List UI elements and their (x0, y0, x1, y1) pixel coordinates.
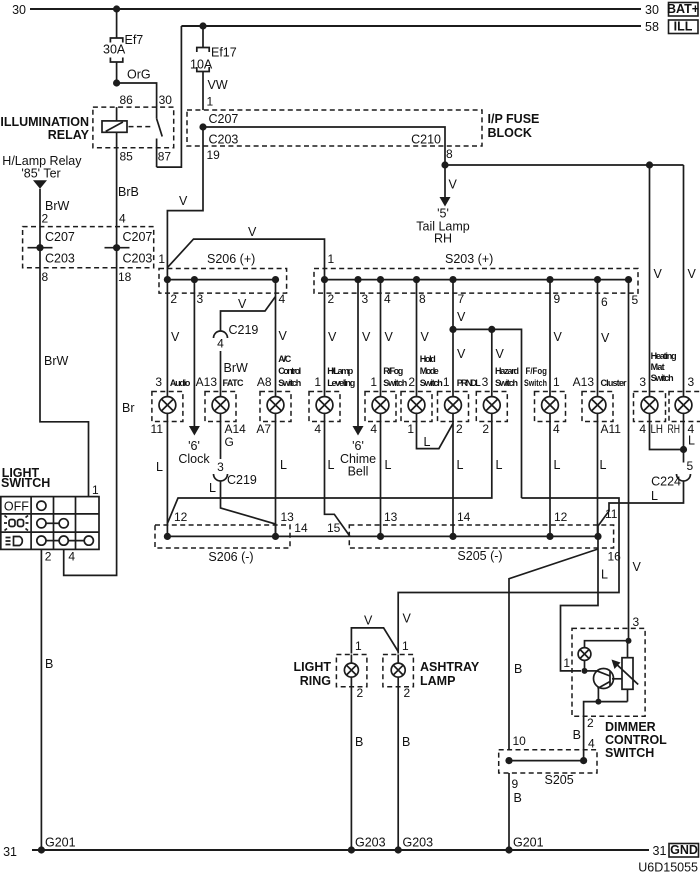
svg-text:4: 4 (384, 292, 391, 306)
svg-text:V: V (248, 225, 257, 239)
light switch contacts row head (37, 536, 94, 545)
wire: heating mat LH pin 4 join (639, 422, 683, 450)
svg-text:U6D15055: U6D15055 (638, 861, 698, 875)
wire Br: connector C203 pin 18 to light switch pin 4 (64, 248, 135, 576)
lamp R/fog switch illumination (365, 392, 396, 422)
svg-text:L: L (385, 458, 392, 472)
wire B: light ring to ground G203 (351, 687, 363, 850)
light switch contacts row parking (37, 519, 69, 528)
lamp hold mode switch illumination (401, 392, 432, 422)
wire V: S203 pin 6 to cluster lamp (598, 280, 611, 392)
svg-text:86: 86 (120, 93, 134, 107)
svg-text:1: 1 (563, 656, 570, 670)
clock destination label (178, 439, 210, 466)
svg-text:31: 31 (3, 845, 17, 859)
light ring label (294, 660, 332, 688)
svg-text:4: 4 (370, 422, 377, 436)
svg-text:A13: A13 (196, 375, 218, 389)
connector C219 pin 3 (214, 460, 257, 487)
svg-text:BrB: BrB (118, 185, 139, 199)
svg-text:L: L (156, 460, 163, 474)
svg-text:9: 9 (512, 777, 519, 791)
svg-text:A14: A14 (225, 422, 247, 436)
connector C207/C203 junction BrB (105, 244, 130, 251)
svg-text:B: B (45, 657, 53, 671)
svg-text:1: 1 (402, 639, 409, 653)
svg-text:30A: 30A (103, 43, 126, 57)
svg-text:Mode: Mode (420, 366, 439, 376)
svg-text:1: 1 (443, 375, 450, 389)
lamp H/lamp leveling illumination (309, 392, 340, 422)
lamp heating mat switch LH illumination (634, 392, 666, 422)
svg-text:30: 30 (12, 3, 26, 17)
ground G203 (light ring) (348, 836, 386, 854)
svg-text:3: 3 (688, 375, 695, 389)
svg-text:ILLUMINATION: ILLUMINATION (0, 115, 89, 129)
wire V: pin7 branch to ashtray feed (398, 498, 619, 654)
svg-text:5: 5 (632, 293, 639, 307)
svg-text:S205 (-): S205 (-) (457, 549, 502, 563)
svg-text:4: 4 (639, 422, 646, 436)
svg-text:14: 14 (294, 521, 308, 535)
svg-text:2: 2 (404, 686, 411, 700)
svg-text:3: 3 (633, 615, 640, 629)
ILL terminal box (669, 20, 699, 34)
dimmer bottom junction (584, 699, 628, 717)
wire V: to hazard lamp (492, 329, 505, 391)
net 30 battery rail (12, 3, 659, 17)
S203 (+) bus wire (325, 279, 629, 281)
svg-text:G203: G203 (355, 836, 386, 850)
svg-text:11: 11 (151, 422, 164, 436)
svg-text:SWITCH: SWITCH (1, 476, 50, 490)
relay coil (102, 107, 127, 148)
relay contact switch (157, 107, 163, 167)
svg-text:3: 3 (217, 460, 224, 474)
svg-text:C203: C203 (123, 252, 153, 266)
S206 (+) junction pin 3 (191, 276, 198, 283)
splice S206 (-) box (155, 525, 290, 564)
splice S205 box (lower) (499, 750, 597, 787)
svg-text:V: V (171, 330, 180, 344)
dimmer illumination lamp (578, 648, 591, 671)
svg-text:B: B (402, 735, 410, 749)
svg-text:1: 1 (553, 375, 560, 389)
svg-text:12: 12 (554, 510, 568, 524)
ground G201 (light switch) (38, 836, 76, 854)
svg-text:B: B (355, 735, 363, 749)
ground G203 (ashtray) (395, 836, 434, 854)
svg-text:V: V (403, 612, 412, 626)
wire B: ashtray to ground G203 (398, 687, 410, 850)
svg-text:B: B (514, 791, 522, 805)
chime bell destination label (340, 439, 376, 479)
svg-text:8: 8 (446, 147, 453, 161)
svg-text:2: 2 (456, 422, 463, 436)
svg-text:C207: C207 (123, 230, 153, 244)
wire relay 87 to net 58 start (157, 26, 182, 167)
svg-text:Clock: Clock (178, 452, 210, 466)
svg-text:L: L (424, 435, 431, 449)
svg-text:Hazard: Hazard (495, 366, 519, 376)
wire L: F/fog pin 4 to S205 pin 12 (550, 422, 561, 537)
net 58 illumination rail (181, 20, 659, 34)
svg-text:Control: Control (278, 366, 301, 376)
svg-text:19: 19 (207, 148, 221, 162)
H/Lamp Relay 85 terminal source label (2, 154, 82, 189)
svg-text:V: V (179, 194, 188, 208)
svg-text:RELAY: RELAY (48, 128, 90, 142)
svg-text:C224: C224 (651, 475, 681, 489)
wire L: heating mat RH pin 4 to C224 (668, 422, 696, 463)
svg-text:Switch: Switch (651, 373, 674, 383)
wire V: S203 pin 9 to F/Fog lamp (550, 280, 563, 392)
svg-text:15: 15 (327, 521, 341, 535)
lamp hazard switch illumination (476, 392, 507, 422)
svg-text:PRNDL: PRNDL (457, 378, 482, 388)
connector C219 pin 4 (214, 323, 259, 351)
svg-text:30: 30 (645, 3, 659, 17)
svg-text:A8: A8 (257, 375, 272, 389)
svg-text:C207: C207 (209, 112, 239, 126)
lamp cluster illumination (582, 392, 613, 422)
svg-text:Switch: Switch (495, 378, 518, 388)
svg-text:1: 1 (370, 375, 377, 389)
svg-text:S206 (-): S206 (-) (208, 550, 253, 564)
svg-text:L: L (688, 434, 695, 448)
svg-text:11: 11 (605, 507, 618, 521)
junction on net 58 (199, 22, 206, 29)
wire V: S203 pin 7 branch (449, 280, 521, 498)
dimmer internal top junction (585, 638, 632, 648)
svg-text:3: 3 (482, 375, 489, 389)
svg-text:I/P FUSE: I/P FUSE (488, 112, 540, 126)
svg-text:13: 13 (384, 510, 398, 524)
svg-text:13: 13 (281, 510, 295, 524)
svg-text:Ef7: Ef7 (125, 33, 144, 47)
dimmer rheostat (612, 641, 639, 702)
svg-text:2: 2 (587, 716, 594, 730)
wire L: cluster pin A11 to S205 pin 11 (598, 422, 622, 537)
splice S205 (-) box (349, 525, 613, 563)
svg-text:V: V (457, 310, 466, 324)
svg-text:C207: C207 (45, 230, 75, 244)
svg-text:BrW: BrW (44, 354, 69, 368)
lamp PRNDL illumination (438, 392, 469, 422)
lamp FATC illumination (205, 392, 236, 422)
lamp ashtray (383, 655, 414, 687)
svg-text:C219: C219 (229, 323, 259, 337)
svg-text:V: V (554, 330, 563, 344)
svg-text:L: L (209, 481, 216, 495)
svg-text:L: L (280, 458, 287, 472)
svg-text:BAT+: BAT+ (667, 2, 699, 16)
svg-text:S205: S205 (545, 773, 574, 787)
S203 junctions (321, 276, 632, 283)
svg-text:1: 1 (407, 422, 414, 436)
svg-text:4: 4 (68, 550, 75, 564)
svg-text:9: 9 (554, 292, 561, 306)
svg-text:4: 4 (314, 422, 321, 436)
svg-text:L: L (328, 458, 335, 472)
svg-text:10: 10 (513, 734, 527, 748)
svg-text:V: V (601, 331, 610, 345)
node OrG junction (113, 68, 151, 87)
connector C224 pin 5 (651, 459, 693, 489)
lamp light ring (336, 655, 367, 687)
svg-text:BrW: BrW (224, 361, 249, 375)
svg-text:R/Fog: R/Fog (383, 366, 403, 376)
svg-text:4: 4 (119, 212, 126, 226)
svg-text:2: 2 (357, 686, 364, 700)
svg-text:V: V (279, 329, 288, 343)
svg-text:H/Lamp: H/Lamp (327, 366, 354, 376)
svg-text:C210: C210 (411, 133, 441, 147)
svg-text:G: G (225, 435, 234, 449)
wire V: S203 pin 5 to dimmer pin 3 (629, 280, 642, 641)
svg-text:GND: GND (670, 843, 698, 857)
wire V: C203 pin 19 to splice S206 pin 1 (167, 127, 220, 280)
svg-text:31: 31 (653, 844, 667, 858)
wire V: S203 pin 8 to hold mode lamp (417, 280, 430, 392)
wire BrW: H/Lamp relay to connector C207 (40, 189, 70, 248)
svg-text:Mat: Mat (651, 362, 665, 372)
splice S203 (+) box (314, 252, 638, 293)
svg-text:Audio: Audio (170, 378, 191, 388)
svg-text:L: L (600, 458, 607, 472)
svg-text:L: L (601, 568, 608, 582)
wire fuse Ef7 to node OrG (116, 62, 118, 83)
svg-text:V: V (654, 267, 663, 281)
wire V: S206 pin 2 to audio lamp (167, 280, 180, 392)
junction on net 30 (113, 5, 120, 12)
svg-text:'6': '6' (188, 439, 200, 453)
svg-text:2: 2 (482, 422, 489, 436)
dimmer transistor (585, 669, 614, 702)
GND terminal box (669, 843, 699, 857)
relay coil-contact link (dashed) (129, 126, 153, 128)
wire OrG node to relay contact 30 (117, 83, 157, 107)
svg-text:FATC: FATC (223, 378, 245, 388)
dimmer control switch box (572, 628, 667, 760)
wire V: S206 pin 4 to A/C lamp (276, 280, 288, 392)
BAT+ terminal box (667, 2, 699, 16)
svg-text:V: V (496, 347, 505, 361)
wire B: dimmer pin 2 to S205 pin 4 (573, 716, 595, 761)
svg-text:1: 1 (314, 375, 321, 389)
svg-text:30: 30 (159, 93, 173, 107)
wire BrB: relay 85 to connector C207 pin 4 (117, 148, 139, 248)
svg-text:L: L (457, 458, 464, 472)
svg-text:Switch: Switch (278, 378, 301, 388)
svg-text:VW: VW (208, 78, 228, 92)
svg-text:OrG: OrG (127, 68, 151, 82)
svg-text:3: 3 (155, 375, 162, 389)
S203 pin labels (328, 292, 639, 309)
svg-text:8: 8 (42, 270, 49, 284)
wire VW: fuse Ef17 to I/P fuse block pin 1 (203, 72, 228, 111)
svg-text:3: 3 (197, 292, 204, 306)
svg-text:2: 2 (408, 375, 415, 389)
S205 lower bus (505, 757, 587, 764)
wire BrW: connector C203 pin 8 to light switch pin 1 (40, 248, 89, 497)
wire BrW: C219 to FATC lamp (221, 351, 249, 392)
svg-text:Ef17: Ef17 (211, 46, 237, 60)
C210 pin 8 node (441, 147, 453, 169)
S205 (-) junctions (377, 533, 602, 540)
svg-text:Switch: Switch (524, 378, 547, 388)
S206 (+) bus wire (167, 279, 275, 281)
svg-text:58: 58 (645, 20, 659, 34)
fuse Ef17 (190, 46, 237, 72)
lamp audio illumination (152, 392, 183, 422)
svg-text:1: 1 (355, 639, 362, 653)
wire L: C219 to S206 pin 13 (209, 481, 275, 536)
svg-text:C203: C203 (45, 252, 75, 266)
svg-text:V: V (688, 267, 697, 281)
svg-text:V: V (449, 178, 458, 192)
S206 (+) junction pin 2 (164, 276, 171, 283)
wire V: S203 pin 4 to R/Fog lamp (381, 280, 394, 392)
svg-text:S206 (+): S206 (+) (207, 252, 255, 266)
svg-text:G203: G203 (403, 836, 434, 850)
svg-text:ILL: ILL (674, 20, 693, 34)
wire V: S206 pin 3 to clock (189, 280, 200, 436)
svg-text:F/Fog: F/Fog (526, 366, 548, 376)
svg-text:1: 1 (207, 95, 214, 109)
svg-text:G201: G201 (45, 836, 76, 850)
svg-text:3: 3 (639, 375, 646, 389)
I/P fuse block label (488, 112, 540, 140)
lamp A/C control switch illumination (260, 392, 291, 422)
svg-text:Hold: Hold (420, 354, 436, 364)
svg-text:V: V (328, 330, 337, 344)
wire G: FATC pin A14 to C219 pin 3 (221, 422, 247, 460)
svg-text:7: 7 (458, 292, 465, 306)
svg-text:2: 2 (328, 292, 335, 306)
wire V: S203 pin 2 to H/Lamp leveling lamp (325, 280, 338, 392)
svg-text:LAMP: LAMP (420, 674, 455, 688)
connector pair C207/C203 box (left) (23, 227, 154, 268)
lamp F/fog switch illumination (535, 392, 566, 422)
svg-text:V: V (457, 347, 466, 361)
svg-text:RING: RING (300, 674, 331, 688)
svg-text:5: 5 (687, 459, 694, 473)
svg-text:B: B (514, 662, 522, 676)
svg-text:Cluster: Cluster (601, 378, 627, 388)
light switch block (1, 466, 50, 490)
ground G201 (S205) (505, 836, 543, 854)
wire V tap to C219 pin 4 / FATC (221, 297, 276, 331)
svg-text:18: 18 (118, 270, 132, 284)
svg-text:2: 2 (45, 550, 52, 564)
svg-text:85: 85 (120, 150, 134, 164)
svg-text:RH: RH (668, 422, 681, 436)
wire L: hazard pin 2 to S206 pin 12 (167, 422, 502, 524)
S206 (-) junction pin 12 (164, 533, 171, 540)
tail lamp RH destination label (416, 207, 470, 246)
svg-text:A7: A7 (256, 422, 271, 436)
svg-text:10A: 10A (190, 58, 213, 72)
svg-text:ASHTRAY: ASHTRAY (420, 660, 480, 674)
svg-text:1: 1 (328, 252, 335, 266)
svg-text:CONTROL: CONTROL (605, 733, 667, 747)
svg-text:4: 4 (217, 337, 224, 351)
svg-text:V: V (362, 330, 371, 344)
fuse Ef7 (103, 33, 143, 62)
svg-text:C219: C219 (227, 473, 257, 487)
wire L: A/C pin A7 to S206 pin 13 (256, 422, 287, 537)
svg-text:'85' Ter: '85' Ter (21, 167, 60, 181)
lamp heating mat switch RH illumination (669, 392, 700, 422)
svg-text:8: 8 (419, 292, 426, 306)
svg-text:Leveling: Leveling (327, 378, 355, 388)
svg-text:V: V (238, 297, 247, 311)
light switch contacts row OFF (37, 501, 46, 510)
svg-text:B: B (573, 728, 581, 742)
wire V: heating mat LH feed (646, 161, 663, 391)
wire V: tap to light ring (351, 612, 411, 654)
svg-text:L: L (554, 458, 561, 472)
wire V: S203 pin 3 to chime bell (353, 280, 372, 436)
svg-text:Heating: Heating (651, 351, 677, 361)
wire V: to PRNDL lamp (453, 329, 466, 391)
svg-text:4: 4 (588, 737, 595, 751)
wire L: PRNDL pin 2 to S205 pin 14 (453, 422, 464, 537)
wire L: R/fog pin 4 to S205 pin 13 (370, 422, 391, 537)
svg-text:DIMMER: DIMMER (605, 720, 656, 734)
svg-text:1: 1 (158, 252, 165, 266)
wire L: hold mode pin 1 joins PRNDL wire (407, 422, 453, 450)
svg-text:1: 1 (92, 483, 99, 497)
illumination relay U1 box (0, 107, 173, 148)
svg-text:A/C: A/C (278, 354, 292, 364)
wire B: branch to S205 pin 10 (509, 549, 598, 750)
wire L: C224 to S205 pin 11 (598, 482, 684, 537)
wire 30 rail to fuse Ef7 (116, 9, 118, 38)
svg-text:2: 2 (42, 212, 49, 226)
svg-text:Switch: Switch (420, 378, 443, 388)
wire B: light switch pin 2 to ground G201 (41, 549, 53, 850)
svg-text:6: 6 (601, 295, 608, 309)
svg-text:12: 12 (174, 510, 188, 524)
svg-text:C203: C203 (209, 133, 239, 147)
wire 58 rail to fuse Ef17 (202, 26, 204, 48)
wire V inside fuse block: VW junction to C210 (199, 123, 445, 165)
svg-text:LIGHT: LIGHT (294, 660, 332, 674)
svg-text:14: 14 (457, 510, 471, 524)
splice S206 (+) box (158, 252, 286, 293)
wire V: to tail lamp RH (440, 165, 458, 207)
svg-text:V: V (385, 330, 394, 344)
I/P fuse block connector strip C207/C203 (187, 110, 482, 147)
ashtray lamp label (420, 660, 480, 688)
svg-text:Bell: Bell (348, 465, 369, 479)
svg-text:S203 (+): S203 (+) (445, 252, 493, 266)
wire L: audio pin 11 to S206 pin 12 (151, 422, 168, 537)
svg-text:V: V (421, 330, 430, 344)
svg-text:G201: G201 (513, 836, 544, 850)
wire V: C210 junction to heating mat feeds (445, 164, 684, 166)
svg-text:A11: A11 (601, 422, 622, 436)
svg-text:L: L (651, 489, 658, 503)
svg-text:LH: LH (651, 422, 664, 436)
S206/S205 minus pin labels (174, 507, 621, 564)
svg-text:2: 2 (170, 292, 177, 306)
svg-text:Br: Br (122, 401, 135, 415)
svg-text:RH: RH (434, 232, 452, 246)
svg-text:OFF: OFF (4, 500, 29, 514)
